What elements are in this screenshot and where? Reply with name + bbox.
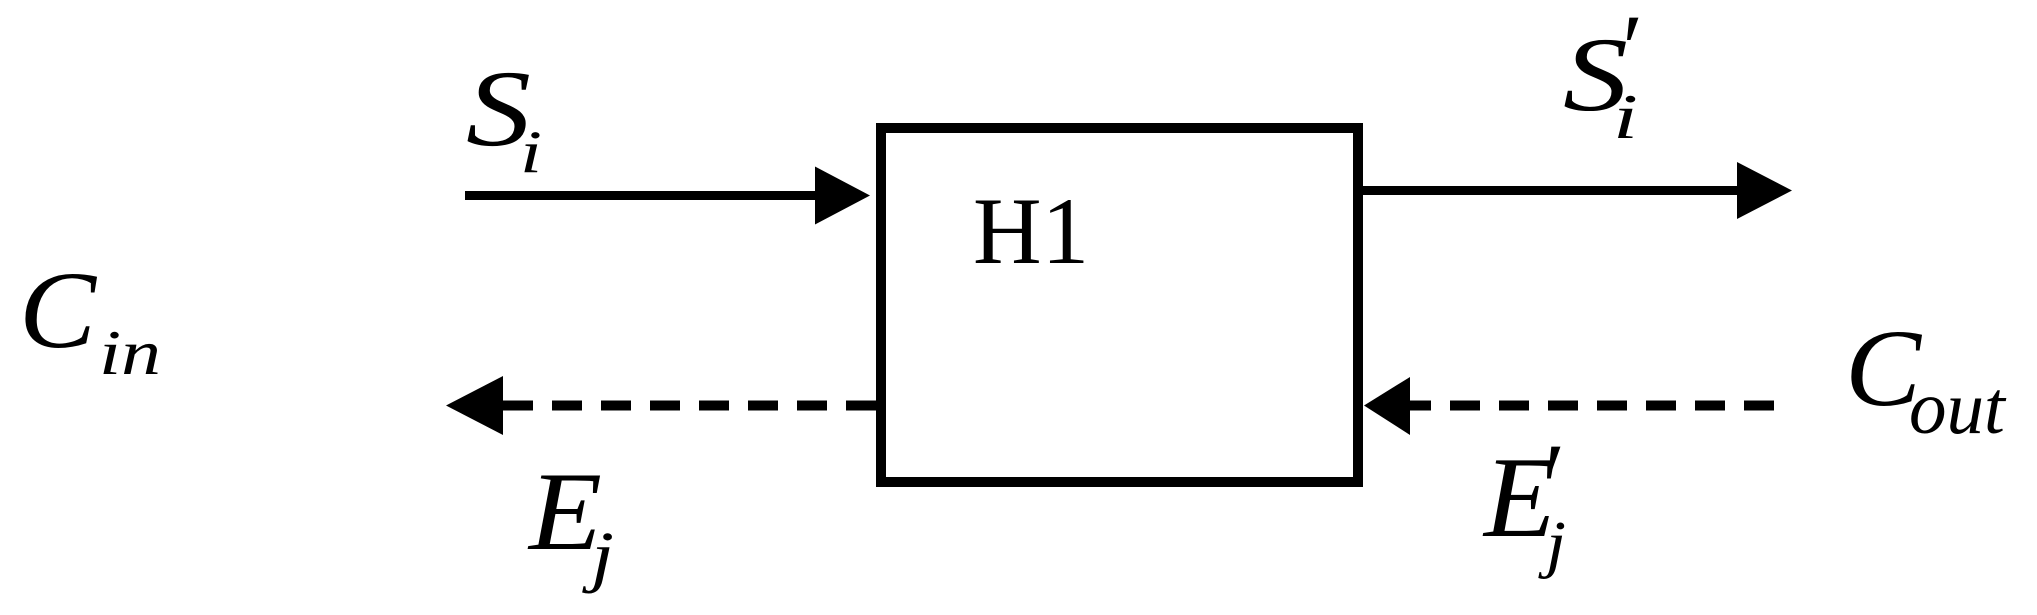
svg-text:out: out <box>1909 367 2007 450</box>
svg-text:H1: H1 <box>973 178 1089 284</box>
wire: output signal line S'_i <box>1363 186 1740 195</box>
wire: dashed return line E'_j (right) <box>1410 401 1774 411</box>
wire: input signal line S_i <box>465 191 818 200</box>
svg-text:i: i <box>1613 82 1638 152</box>
arrowhead output <box>1737 162 1792 219</box>
arrowhead dashed right <box>1364 377 1410 435</box>
arrowhead dashed left <box>446 376 503 435</box>
svg-text:C: C <box>19 249 98 371</box>
svg-text:i: i <box>520 119 542 185</box>
arrowhead input <box>815 167 870 225</box>
svg-text:in: in <box>99 318 161 388</box>
wire: dashed return line E_j (left) <box>500 401 876 411</box>
block H1 box <box>881 128 1358 482</box>
